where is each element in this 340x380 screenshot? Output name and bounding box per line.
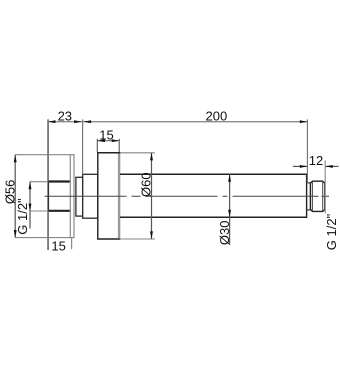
svg-text:Ø30: Ø30: [217, 221, 232, 246]
dimension 15 top: [97, 128, 119, 153]
wall connector G1/2: [48, 181, 71, 212]
dimension O60: [120, 153, 155, 239]
dimension 15 bottom: [51, 238, 71, 253]
svg-text:23: 23: [58, 108, 72, 123]
dimension 23: [48, 108, 83, 123]
tube O30: [120, 174, 307, 219]
svg-text:200: 200: [206, 108, 228, 123]
disc O60: [97, 152, 120, 239]
centerline: [45, 195, 330, 197]
thread groove: [307, 183, 311, 210]
svg-text:15: 15: [99, 128, 113, 143]
dimension G 1/2 left: [15, 182, 48, 235]
extension line tube end: [306, 119, 308, 183]
dimension O56: [3, 155, 72, 238]
extension line wall face: [47, 119, 49, 250]
svg-text:G 1/2": G 1/2": [15, 198, 30, 235]
nut: [76, 177, 83, 216]
extension line disc face: [82, 119, 84, 174]
wall plate O56: [70, 155, 74, 238]
dimension 200: [83, 108, 308, 123]
svg-text:G 1/2": G 1/2": [324, 213, 339, 250]
dimension O30: [217, 174, 232, 245]
svg-text:Ø60: Ø60: [139, 172, 154, 197]
svg-text:15: 15: [51, 238, 65, 253]
thread tip G1/2: [310, 181, 324, 211]
svg-text:12: 12: [309, 153, 323, 168]
dimension 12: [293, 153, 339, 214]
neck: [83, 174, 98, 218]
